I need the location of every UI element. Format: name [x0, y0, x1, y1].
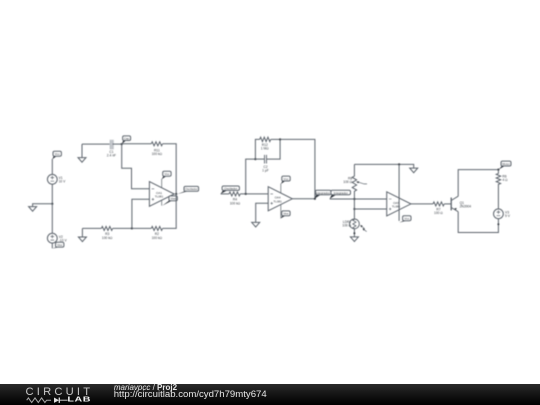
node integrator output	[314, 198, 316, 200]
net flag Motor	[499, 161, 511, 169]
power flag Vee at V2	[52, 242, 64, 248]
wire junction to OA5 non-inverting input	[354, 208, 386, 210]
resistor R12 1 M	[260, 137, 271, 150]
capacitor C1 2.4 nF (selected highlight)	[107, 140, 116, 158]
svg-text:Motor: Motor	[502, 162, 510, 166]
svg-text:Oscilador: Oscilador	[224, 187, 237, 191]
svg-text:100 kΩ: 100 kΩ	[152, 152, 163, 156]
svg-text:1 MΩ: 1 MΩ	[261, 147, 269, 151]
wire V1 bottom to junction	[51, 184, 53, 204]
svg-text:Vee: Vee	[170, 197, 176, 201]
net flag Integrador at comparator input	[330, 190, 351, 199]
wire top rail to output vertical	[280, 139, 315, 198]
node R4/feedback junction	[245, 193, 247, 195]
power flag Vee at OA1	[162, 196, 177, 206]
svg-text:TL081: TL081	[155, 195, 164, 199]
svg-text:Vcc: Vcc	[404, 217, 410, 221]
wire junction up to OA1 non-inverting input	[132, 199, 150, 228]
node V3 bottom	[497, 223, 499, 225]
wire OA5 output to R7	[411, 203, 433, 205]
ground (left of sources)	[29, 207, 37, 212]
svg-text:Vee: Vee	[283, 212, 289, 216]
op-amp OA5 TL081	[387, 192, 411, 216]
wire up to R12	[255, 139, 259, 159]
wire R2 to right vertical	[163, 194, 177, 228]
node LDR ground	[353, 232, 355, 234]
svg-text:10 V: 10 V	[59, 180, 67, 184]
ground (left of C1)	[78, 144, 86, 162]
wire R7 to Q1 base	[444, 203, 451, 205]
node Cap	[121, 143, 123, 145]
photoresistor LDR1 100 ohm	[342, 219, 366, 232]
op-amp OA4 TL081	[268, 184, 292, 218]
svg-text:100 kΩ: 100 kΩ	[102, 236, 113, 240]
ground (top right)	[410, 168, 418, 173]
wire junction down to LDR	[353, 199, 355, 219]
op-amp OA1 TL081	[149, 179, 174, 207]
ground (below R3)	[78, 228, 86, 241]
voltage source V3 9 V	[494, 209, 511, 219]
power flag Vcc at V1	[52, 151, 61, 159]
node R3/R2 junction	[131, 227, 133, 229]
svg-text:100 kΩ: 100 kΩ	[152, 236, 163, 240]
resistor R4 100 k	[229, 192, 241, 205]
svg-text:LAB: LAB	[67, 395, 91, 403]
svg-text:9 V: 9 V	[505, 214, 511, 218]
svg-text:Vee: Vee	[57, 243, 63, 247]
wire junction to R2	[132, 227, 151, 229]
voltage source V1 10 V	[47, 174, 66, 184]
wire LDR to ground	[353, 229, 355, 237]
svg-text:100 Ω: 100 Ω	[434, 211, 443, 215]
net flag Oscilador at R4 input	[221, 186, 240, 194]
node OA5 V+ rail	[398, 163, 400, 165]
wire ground to R3	[82, 227, 101, 229]
svg-text:Vcc: Vcc	[55, 152, 61, 156]
node motor	[497, 169, 499, 171]
resistor R6 4 ohm	[496, 170, 508, 209]
wire OA5 supply vertical	[398, 164, 400, 221]
svg-text:Integrador: Integrador	[334, 191, 348, 195]
resistor R3 100 k	[101, 226, 113, 239]
resistor R11 100 k	[151, 142, 162, 156]
wire V3 to emitter loop	[458, 212, 498, 233]
wire Cap node jog to OA1 inverting input	[122, 144, 150, 189]
resistor R2 100 k	[151, 226, 162, 239]
wire Vcc flag to V1 top	[51, 159, 53, 175]
svg-text:Integrador: Integrador	[316, 191, 330, 195]
node feedback right	[279, 138, 281, 140]
transistor Q1 2N3904	[451, 196, 471, 212]
wire R12 to top-right node	[271, 138, 280, 140]
power flag Vcc at OA5	[399, 216, 411, 223]
capacitor C2 1 uF	[262, 155, 269, 173]
wire junction down to V2	[51, 204, 53, 234]
svg-text:Vcc: Vcc	[283, 177, 289, 181]
wire OA4 non-inverting input to ground	[256, 203, 269, 222]
wire C2 right lead up to top node	[267, 139, 281, 159]
svg-text:Cap: Cap	[124, 136, 130, 140]
wire ground to C1	[82, 143, 110, 145]
svg-text:1 µF: 1 µF	[262, 169, 269, 173]
voltage source V2 -10 V	[47, 233, 67, 243]
node feedback left	[254, 158, 256, 160]
power flag Vcc at OA4	[281, 176, 290, 184]
wire C1 to Cap node	[113, 143, 122, 145]
node junction V1/V2/ground	[51, 203, 53, 205]
wire comparator input	[330, 198, 387, 200]
ground (below LDR)	[350, 237, 358, 242]
ground (below OA4)	[252, 222, 260, 227]
node R8 bottom junction	[353, 198, 355, 200]
svg-text:TL081: TL081	[273, 200, 282, 204]
CircuitLab logo	[0, 384, 110, 405]
footer text	[114, 384, 177, 392]
svg-text:2.4 nF: 2.4 nF	[107, 153, 116, 157]
potentiometer R8 100 ohm	[343, 164, 367, 199]
wire top rail to ground	[354, 164, 413, 168]
svg-text:Oscilador: Oscilador	[185, 187, 198, 191]
svg-text:100 Ω: 100 Ω	[343, 180, 352, 184]
node OA5 plus junction	[353, 208, 355, 210]
net flag Cap	[122, 136, 131, 144]
node OA1 output	[175, 193, 177, 195]
wire feedback left vertical	[246, 159, 256, 194]
svg-text:Vcc: Vcc	[164, 172, 170, 176]
wire C2 left lead	[255, 158, 264, 160]
wire flag to R4	[221, 193, 229, 195]
svg-text:2N3904: 2N3904	[460, 205, 472, 209]
net flag Oscilador at OA1 output	[177, 186, 199, 194]
power flag Vee at OA4	[280, 211, 290, 219]
net flag Integrador at OA4 output	[315, 190, 331, 198]
svg-text:100 kΩ: 100 kΩ	[230, 201, 241, 205]
wire Cap node to R11	[122, 143, 152, 145]
svg-text:4 Ω: 4 Ω	[502, 178, 508, 182]
svg-text:100 Ω: 100 Ω	[342, 223, 351, 227]
wire junction to left ground	[33, 204, 53, 207]
wire R11 to right vertical and down to output node	[163, 144, 177, 194]
resistor R7 100 ohm	[433, 202, 444, 215]
wire R4 to OA4 inverting input	[240, 193, 268, 195]
wire OA4 output	[292, 198, 315, 200]
wire V2 bottom stub	[51, 243, 53, 248]
wire collector to motor rail	[458, 170, 498, 197]
power flag Vcc at OA1	[162, 171, 171, 179]
wire R3 to feedback node	[113, 227, 132, 229]
